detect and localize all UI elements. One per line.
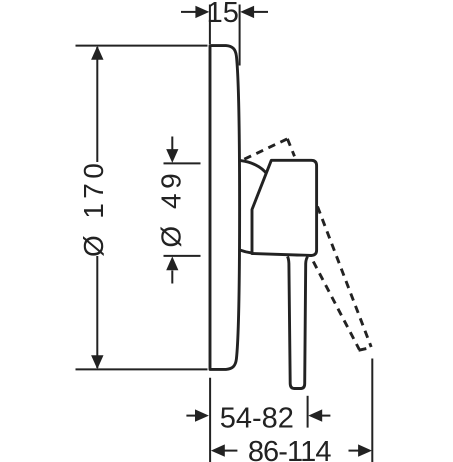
dim 54-82: right extension line	[307, 396, 309, 428]
sleeve top curve	[241, 161, 267, 174]
handle body	[252, 160, 317, 255]
dim 86-114: right extension line	[371, 359, 373, 462]
svg-text:Ø 49: Ø 49	[156, 169, 187, 248]
dim Ø170: top extension line	[76, 45, 208, 47]
dim Ø49: bottom leader and arrow	[171, 271, 173, 284]
dim 86-114: left arrow and tail	[211, 444, 225, 456]
dim 54-82: right tail and arrow	[321, 415, 330, 417]
svg-text:Ø 170: Ø 170	[78, 159, 109, 257]
dim Ø170: dimension line lower segment	[96, 256, 98, 368]
dim 54-82: left extension line	[209, 378, 211, 462]
dim 15: left tail and arrow	[181, 11, 197, 13]
dim 54-82: left tail and arrow	[186, 415, 196, 417]
dashed rotated lever lower line	[313, 262, 359, 350]
dim Ø170: dimension line upper segment	[96, 47, 98, 162]
dim 86-114: right tail and arrow	[349, 450, 360, 452]
handle lever	[288, 256, 308, 388]
dashed handle-up outline (right segment)	[287, 139, 294, 157]
dashed rotated lever end cap	[359, 348, 371, 351]
dim 15: right extension line	[239, 5, 241, 66]
dim Ø49: bottom tick	[164, 255, 201, 257]
dashed rotated lever upper line	[318, 207, 372, 348]
dashed handle-up outline (left segment)	[244, 139, 287, 159]
escutcheon plate outline	[210, 46, 240, 370]
svg-text:15: 15	[207, 0, 239, 29]
dim Ø49: top tick	[164, 162, 201, 164]
dim 15: left extension line	[209, 5, 211, 45]
svg-text:54-82: 54-82	[220, 403, 294, 435]
dim Ø170: bottom extension line	[76, 368, 208, 370]
dim Ø170: bottom arrow	[91, 355, 103, 369]
dim Ø49: top leader and arrow	[171, 137, 173, 151]
svg-text:86-114: 86-114	[248, 436, 332, 462]
dim Ø170: top arrow	[91, 46, 103, 60]
sleeve bottom curve	[240, 250, 252, 253]
dim 15: right tail and arrow	[254, 11, 269, 13]
